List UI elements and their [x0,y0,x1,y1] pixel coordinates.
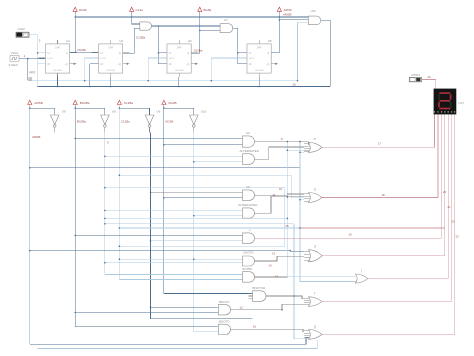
svg-text:BNOTCD: BNOTCD [253,286,267,290]
svg-text:~Q: ~Q [117,63,120,66]
svg-text:b: b [314,187,316,191]
svg-text:1CLK: 1CLK [169,58,175,60]
svg-text:Q: Q [267,52,269,55]
svg-text:C0: C0 [246,185,250,189]
svg-text:11: 11 [273,193,276,197]
svg-text:DG3B: DG3B [78,48,86,52]
svg-text:18: 18 [382,193,386,197]
svg-text:PR7: PR7 [30,71,36,75]
svg-text:BG8a: BG8a [204,8,212,12]
svg-text:1PR: 1PR [257,46,262,49]
svg-text:Q: Q [187,52,189,55]
svg-text:74LS76D: 74LS76D [106,70,116,72]
svg-text:g: g [314,324,316,328]
svg-text:DG2B: DG2B [165,120,173,124]
svg-text:CNOTD: CNOTD [243,251,254,255]
svg-text:e: e [314,137,316,141]
svg-text:74LS76D: 74LS76D [175,70,185,72]
svg-text:~Q: ~Q [64,63,67,66]
svg-text:AMSF: AMSF [284,8,293,12]
svg-text:U8: U8 [112,110,116,114]
svg-text:74LS76D: 74LS76D [255,70,265,72]
svg-text:17: 17 [378,141,382,145]
svg-text:14: 14 [269,264,273,268]
svg-text:24: 24 [428,75,432,79]
svg-text:U9: U9 [62,110,66,114]
svg-text:1CLK: 1CLK [100,58,106,60]
svg-text:d: d [314,245,316,249]
svg-text:U4: U4 [188,39,192,43]
svg-text:BG2Ba: BG2Ba [80,101,90,105]
svg-text:20: 20 [443,190,447,194]
svg-text:AMSB: AMSB [32,135,41,139]
svg-text:A0: A0 [246,131,250,135]
svg-text:J4G2: J4G2 [18,27,26,31]
svg-text:21: 21 [448,205,452,209]
svg-text:DG3F: DG3F [79,8,87,12]
svg-text:AMSB: AMSB [34,101,43,105]
svg-text:15: 15 [275,275,279,279]
svg-text:19: 19 [349,233,353,237]
svg-text:13: 13 [272,252,276,256]
svg-text:U11: U11 [311,9,317,13]
svg-text:25: 25 [286,224,290,228]
svg-text:JG2Ba: JG2Ba [194,49,203,53]
svg-text:U5: U5 [268,39,272,43]
svg-text:U6: U6 [157,110,161,114]
svg-text:Q: Q [119,52,121,55]
svg-text:1PR: 1PR [55,46,60,49]
svg-text:f: f [314,292,315,296]
svg-text:1K: 1K [100,63,103,66]
svg-text:74LS76D: 74LS76D [53,70,63,72]
svg-text:U2: U2 [119,39,123,43]
svg-text:16: 16 [253,325,257,329]
svg-text:U17: U17 [459,101,465,105]
svg-text:U1: U1 [66,39,70,43]
svg-text:C13Ba: C13Ba [136,35,146,39]
svg-text:j: j [361,268,363,272]
svg-text:26: 26 [293,83,297,87]
svg-text:DSW1: DSW1 [412,73,421,77]
svg-text:22: 22 [452,220,456,224]
svg-text:U10: U10 [201,110,207,114]
svg-text:5.0kHz: 5.0kHz [9,63,19,67]
svg-text:C12Ba: C12Ba [121,120,130,124]
svg-text:~Q: ~Q [266,63,269,66]
svg-text:V1G2: V1G2 [11,51,19,55]
svg-text:ALTERNATED: ALTERNATED [240,149,260,153]
svg-text:1K: 1K [169,63,172,66]
svg-text:10: 10 [279,187,283,191]
svg-text:1CLK: 1CLK [47,58,53,60]
svg-text:AMSB: AMSB [283,13,292,17]
svg-text:1K: 1K [47,63,50,66]
svg-text:1PR: 1PR [177,46,182,49]
svg-text:23: 23 [456,235,460,239]
svg-text:1K: 1K [249,63,252,66]
svg-text:BNOTC: BNOTC [219,300,230,304]
svg-text:1CLK: 1CLK [249,58,255,60]
svg-text:1PR: 1PR [108,46,113,49]
svg-text:U7: U7 [224,18,228,22]
svg-text:C13a: C13a [136,8,144,12]
svg-text:NOTBC: NOTBC [242,267,253,271]
svg-text:C12Ba: C12Ba [124,101,134,105]
svg-text:~Q: ~Q [186,63,189,66]
svg-text:DG2B: DG2B [168,101,176,105]
svg-text:12: 12 [240,306,244,310]
svg-text:BNOTD: BNOTD [219,320,230,324]
svg-text:BG2Ba: BG2Ba [77,120,87,124]
svg-text:ALTERNATED: ALTERNATED [238,203,258,207]
svg-text:Q: Q [66,52,68,55]
